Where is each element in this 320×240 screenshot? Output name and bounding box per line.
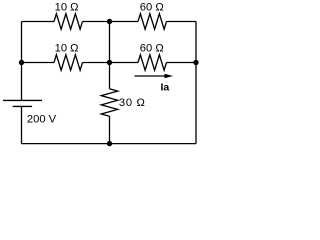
wire row2 right segment [167,62,197,64]
junction dot middle row2 node [107,60,112,65]
wire left vertical (top of battery up to top-left corner) [21,22,23,101]
resistor R3 10 ohm middle row [54,55,82,71]
wire row2 middle segment [83,62,139,64]
wire middle vertical upper [109,22,111,89]
wire row2 left segment [22,62,55,64]
svg-text:200 V: 200 V [27,114,57,126]
resistor R2 60 ohm top row [138,14,167,30]
battery V1 long plate [3,99,42,101]
junction dot top middle node [107,19,112,24]
wire top right segment [167,21,197,23]
current arrow Ia shaft [135,75,167,77]
junction dot right row2 node [193,60,198,65]
wire bottom horizontal [22,143,197,145]
svg-text:10 Ω: 10 Ω [55,43,79,55]
current arrow Ia head [165,74,174,79]
svg-text:Ia: Ia [161,82,170,94]
junction dot bottom middle node [107,141,112,146]
resistor R4 60 ohm middle row [138,55,167,71]
wire middle vertical lower [109,116,111,143]
svg-text:60 Ω: 60 Ω [140,2,164,14]
wire top middle segment [83,21,139,23]
svg-text:10 Ω: 10 Ω [55,2,79,14]
resistor R1 10 ohm top row [54,14,82,30]
resistor R5 30 ohm vertical [101,89,118,117]
wire top left segment [22,21,55,23]
svg-text:30 Ω: 30 Ω [119,97,146,109]
wire right vertical [195,22,197,144]
battery V1 short plate [13,105,32,107]
wire left vertical lower (battery bottom to bottom-left corner) [21,106,23,143]
junction dot left row2 node [19,60,24,65]
svg-text:60 Ω: 60 Ω [140,43,164,55]
